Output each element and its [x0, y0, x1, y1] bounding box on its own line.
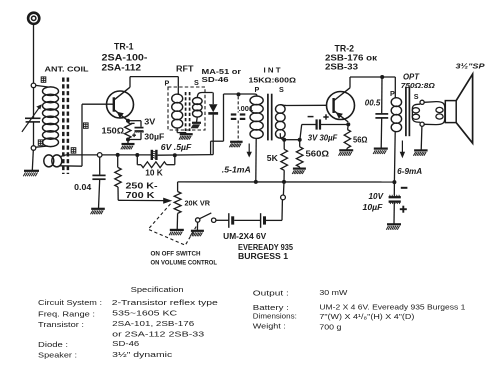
label 750:8 — [401, 81, 435, 90]
label RFT — [176, 64, 194, 73]
svg-text:I N T: I N T — [264, 66, 282, 75]
svg-text:SD-46: SD-46 — [202, 75, 229, 84]
INT secondary coil — [276, 105, 287, 139]
label MA-51 or — [202, 67, 242, 76]
svg-text:30µF: 30µF — [144, 132, 164, 141]
svg-text:EVEREADY 935: EVEREADY 935 — [238, 243, 294, 252]
wire wiper arrow — [118, 198, 172, 204]
label 700K — [126, 190, 155, 200]
wire switch to ground — [196, 222, 198, 230]
ground Q1 emitter — [121, 144, 135, 149]
wire rail left — [66, 154, 151, 156]
switch SW pivot — [196, 218, 200, 222]
svg-text:Diode :: Diode : — [38, 340, 68, 349]
svg-text:ON OFF SWITCH: ON OFF SWITCH — [151, 250, 201, 257]
node battery rail — [282, 180, 286, 184]
svg-text:2SA-100-: 2SA-100- — [102, 53, 148, 63]
label TR-1 — [114, 41, 134, 51]
label RFT P — [165, 79, 170, 88]
label 3V 30uF — [308, 133, 338, 143]
capacitor C7 30uF — [302, 114, 347, 129]
label INT S — [279, 85, 284, 94]
svg-text:3V 30µF: 3V 30µF — [308, 133, 338, 143]
node OPT rail end — [392, 180, 396, 184]
wire RFT P bottom — [177, 128, 186, 134]
label 6V .5uF — [161, 143, 193, 152]
node battery connector — [281, 195, 286, 200]
svg-text:Dimensions:: Dimensions: — [253, 311, 297, 320]
label EVEREADY 935 — [238, 243, 294, 252]
capacitor C8 00.5 — [375, 77, 388, 148]
label OPT P — [390, 89, 395, 98]
svg-text:UM-2 X 4 6V. Eveready 935 Bu: UM-2 X 4 6V. Eveready 935 Burgess 1 — [319, 302, 465, 311]
wire coupling bottom to base — [60, 104, 82, 166]
svg-text:15KΩ:600Ω: 15KΩ:600Ω — [249, 76, 297, 85]
label OPT — [403, 73, 420, 82]
ground OPT S — [413, 150, 427, 155]
svg-text:3V: 3V — [144, 117, 156, 126]
capacitor C9 10uF — [389, 182, 401, 224]
wire OPT P bottom — [393, 132, 396, 182]
label 560ohm — [306, 150, 330, 159]
label UM-2X4 6V — [223, 232, 267, 241]
node OPT S top — [420, 100, 424, 104]
svg-text:2-Transistor reflex type: 2-Transistor reflex type — [112, 298, 218, 307]
label 20K VR — [185, 198, 211, 207]
capacitor C2 30uF — [128, 121, 144, 140]
wire INT S bottom — [280, 133, 284, 140]
svg-text:2SA-101, 2SB-176: 2SA-101, 2SB-176 — [112, 319, 194, 328]
svg-text:ON VOLUME CONTROL: ON VOLUME CONTROL — [151, 259, 218, 266]
node C4 tap — [135, 153, 139, 157]
wire RFT S bottom — [196, 117, 199, 123]
resistor R5 560ohm — [296, 140, 303, 169]
svg-text:UM-2X4 6V: UM-2X4 6V — [223, 232, 267, 241]
label black-lead kanji — [38, 140, 43, 145]
node antenna-coil bottom — [31, 146, 36, 151]
wire bias link — [284, 139, 300, 141]
voice coil turns — [436, 107, 443, 119]
wire switch to battery — [216, 219, 229, 221]
svg-text:700 K: 700 K — [126, 190, 155, 200]
ground RFT S — [191, 123, 201, 128]
wire tank bottom — [36, 146, 48, 147]
OPT secondary loop — [412, 102, 444, 125]
label white-lead kanji — [41, 77, 46, 82]
label INT P — [255, 85, 260, 94]
antenna terminal — [28, 13, 39, 24]
antenna coil L1 — [43, 87, 59, 147]
label TR-2 — [335, 44, 355, 54]
label SD-46 — [202, 75, 229, 84]
label 10K — [145, 168, 163, 177]
svg-text:.5-1mA: .5-1mA — [222, 165, 251, 174]
svg-text:10 K: 10 K — [145, 168, 163, 177]
wire OPT S to ground — [420, 126, 423, 150]
speaker SP — [445, 74, 472, 143]
diode D1 MA-51/SD-46 — [208, 93, 218, 114]
label 6-9mA — [397, 167, 422, 176]
coupling coil L2 — [44, 155, 62, 167]
capacitor C5 .5uF — [152, 150, 157, 160]
svg-text:2SA-112: 2SA-112 — [102, 63, 142, 73]
label 5K — [267, 153, 278, 163]
label 0.04 — [74, 183, 92, 192]
label base kanji — [84, 123, 89, 128]
node rail terminal — [97, 153, 102, 158]
svg-text:Freq. Range :: Freq. Range : — [38, 309, 95, 318]
current arrow .5-1mA — [247, 144, 252, 158]
svg-text:00.5: 00.5 — [365, 99, 381, 108]
label minus — [401, 187, 408, 189]
svg-text:6V .5µF: 6V .5µF — [161, 143, 193, 152]
label plus — [400, 206, 407, 213]
transformer T1 RFT box — [168, 87, 205, 130]
node C5 right — [173, 153, 177, 157]
specification table — [38, 285, 465, 360]
svg-text:56Ω: 56Ω — [353, 135, 368, 144]
node R2 tap — [116, 153, 120, 157]
battery cell B1 — [229, 213, 233, 228]
svg-text:30 mW: 30 mW — [319, 288, 347, 297]
ground switch — [190, 231, 204, 236]
wire Q2 collector up — [349, 77, 351, 88]
svg-text:P: P — [255, 85, 260, 94]
svg-text:700 g: 700 g — [319, 322, 341, 331]
node Q2 emitter — [346, 122, 350, 126]
label small kanji — [71, 148, 76, 153]
svg-text:Specification: Specification — [131, 285, 184, 294]
svg-text:5K: 5K — [267, 153, 278, 163]
svg-text:TR-1: TR-1 — [114, 41, 134, 51]
wire between cells — [234, 219, 260, 221]
label 2SB-176 or — [325, 53, 378, 63]
svg-text:SD-46: SD-46 — [112, 339, 139, 348]
label RFT S — [194, 78, 199, 87]
svg-text:Transistor :: Transistor : — [38, 320, 84, 329]
wire 560 to C7 — [300, 125, 302, 140]
wire top rail right — [350, 76, 395, 78]
resistor R1 150ohm — [125, 123, 131, 139]
svg-text:2SB-33: 2SB-33 — [325, 62, 358, 72]
svg-text:7"(W) X 4¹/₈"(H) X 4"(D): 7"(W) X 4¹/₈"(H) X 4"(D) — [319, 312, 414, 321]
svg-text:Weight :: Weight : — [253, 321, 286, 330]
wire diode cathode down — [212, 115, 214, 155]
label ANT.COIL — [45, 65, 90, 74]
INT core — [268, 94, 272, 141]
ground R5 — [292, 169, 306, 174]
switch SW lever — [200, 213, 212, 219]
wire RFT S top to diode — [197, 93, 212, 98]
ground RFT P — [179, 134, 193, 139]
OPT core — [406, 87, 410, 137]
svg-text:10V: 10V — [369, 192, 384, 201]
RFT primary coil — [172, 94, 183, 128]
svg-text:10µF: 10µF — [363, 203, 383, 212]
svg-text:S: S — [279, 85, 284, 94]
wire jog to rail — [211, 141, 224, 154]
resistor R6 56ohm — [344, 124, 350, 150]
battery cell B2 — [261, 213, 265, 228]
svg-text:Speaker :: Speaker : — [38, 351, 77, 360]
node INT-P bottom — [254, 180, 258, 184]
svg-text:Circuit System :: Circuit System : — [38, 298, 102, 307]
ferrite rod core — [63, 78, 68, 175]
ground R6 — [339, 150, 354, 155]
capacitor C6 0.04 — [92, 157, 105, 208]
label 3V — [144, 117, 156, 126]
wire INT P bottom — [255, 138, 257, 182]
node R1 bottom — [126, 138, 130, 142]
node bias junction — [282, 138, 286, 142]
label 56ohm — [353, 135, 368, 144]
svg-text:P: P — [165, 79, 170, 88]
OPT primary coil — [391, 98, 401, 132]
node dot .001 tap — [237, 92, 241, 96]
label .5-1mA — [222, 165, 251, 174]
RFT core — [186, 92, 190, 131]
wire INT-P top run — [224, 94, 254, 141]
label .001 — [239, 104, 254, 113]
ground antenna tank — [23, 171, 39, 176]
svg-text:0.04: 0.04 — [74, 183, 92, 192]
label OPT S — [414, 92, 419, 101]
wire bottom rail — [178, 181, 395, 183]
label BURGESS 1 — [238, 252, 289, 261]
label 30uF — [144, 132, 164, 141]
svg-text:S: S — [414, 92, 419, 101]
label 250K- — [126, 180, 158, 190]
svg-text:6-9mA: 6-9mA — [397, 167, 422, 176]
node 560 junction — [298, 138, 302, 142]
label 15K:600 — [249, 76, 297, 85]
label 2SB-33 — [325, 62, 358, 72]
label INT — [264, 66, 282, 75]
label 3.5 SP — [456, 61, 485, 70]
node antenna-coil top — [31, 83, 36, 88]
transistor Q2 TR-2 — [327, 88, 355, 122]
node Q1 emitter — [126, 119, 130, 123]
node 00.5 tap — [380, 75, 384, 79]
resistor R4 5K — [281, 140, 288, 182]
potentiometer VR 20K — [174, 182, 181, 230]
label 10V — [369, 192, 384, 201]
OPT S turns — [412, 108, 419, 120]
label 2SA-112 — [102, 63, 142, 73]
current arrow 6-9mA — [400, 141, 405, 159]
svg-text:535~1605 KC: 535~1605 KC — [112, 309, 177, 318]
svg-text:560Ω: 560Ω — [306, 150, 330, 159]
RFT secondary coil — [193, 98, 203, 118]
wire coupling top to rail — [61, 155, 67, 157]
wire INT S top to base — [285, 104, 327, 106]
label 00.5 — [365, 99, 381, 108]
wire rail right — [158, 154, 214, 157]
INT primary coil — [250, 94, 263, 138]
wire top rail left — [130, 76, 178, 78]
ground C6 — [91, 209, 105, 214]
label ON OFF SWITCH — [151, 250, 201, 257]
wire battery positive — [266, 200, 282, 220]
svg-text:or 2SA-112 2SB-33: or 2SA-112 2SB-33 — [112, 329, 204, 338]
svg-text:20K VR: 20K VR — [185, 198, 211, 207]
ground C8 — [373, 149, 388, 154]
label 10uF — [363, 203, 383, 212]
wire Q1 collector up — [129, 77, 131, 88]
svg-text:250 K-: 250 K- — [126, 180, 158, 190]
capacitor C3 .001 — [231, 96, 246, 141]
transistor Q1 TR-1 — [82, 87, 134, 121]
variable capacitor C-tune — [22, 88, 42, 146]
mechanical link dashed — [148, 204, 196, 245]
ground VR — [169, 230, 184, 235]
svg-text:BURGESS 1: BURGESS 1 — [238, 252, 289, 261]
ground C9 — [386, 224, 401, 229]
svg-text:P: P — [390, 89, 395, 98]
svg-text:150Ω: 150Ω — [102, 126, 125, 135]
svg-text:RFT: RFT — [176, 64, 194, 73]
wire R1 to ground — [127, 140, 129, 144]
svg-text:Output :: Output : — [253, 288, 289, 297]
label 150ohm — [102, 126, 125, 135]
label ON VOLUME CONTROL — [151, 259, 218, 266]
resistor R3 10K bypass — [137, 155, 175, 168]
wire antenna lead — [33, 25, 35, 85]
svg-text:S: S — [194, 78, 199, 87]
wire tank top — [36, 85, 48, 87]
resistor R2 250K-700K — [115, 155, 121, 200]
wire connector to rail — [282, 182, 285, 195]
label 2SA-100- — [102, 53, 148, 63]
svg-text:3½"SP: 3½"SP — [456, 61, 485, 70]
wire tank to ground — [32, 150, 33, 170]
ground C3 — [229, 142, 242, 147]
svg-text:3½" dynamic: 3½" dynamic — [112, 350, 172, 359]
svg-text:ANT. COIL: ANT. COIL — [45, 65, 90, 74]
switch SW contact — [212, 218, 216, 222]
node OPT S bottom — [420, 122, 424, 126]
wire RFT P top — [177, 77, 179, 95]
wire OPT P top — [394, 77, 396, 98]
